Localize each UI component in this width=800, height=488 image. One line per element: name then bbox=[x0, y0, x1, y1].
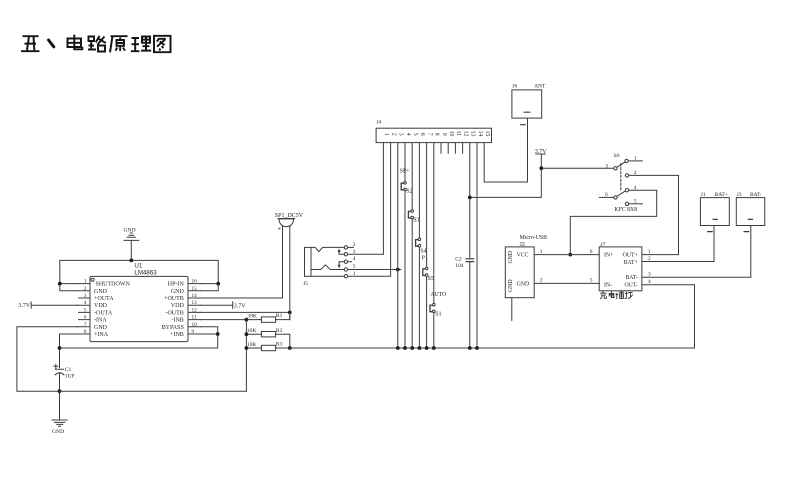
char 电 bbox=[68, 35, 83, 50]
U1 pin-1 indicator circle bbox=[91, 278, 94, 281]
svg-text:14: 14 bbox=[192, 293, 198, 299]
svg-text:GND: GND bbox=[508, 251, 514, 264]
svg-text:39K: 39K bbox=[247, 314, 257, 320]
svg-text:GND: GND bbox=[124, 227, 136, 233]
wire: J4 pin 6 column (with switch S4 gap) bbox=[418, 143, 420, 348]
svg-text:3: 3 bbox=[648, 271, 651, 277]
pushbutton S5 bbox=[423, 267, 428, 276]
svg-text:8: 8 bbox=[434, 133, 440, 136]
J2 labels bbox=[520, 235, 548, 248]
junction dot VCC node bbox=[568, 253, 572, 257]
U1 right pin stubs 16-9 bbox=[188, 284, 201, 334]
wire: 3.7V node to S6 pin 3 bbox=[541, 167, 614, 169]
svg-text:7: 7 bbox=[426, 133, 432, 136]
svg-text:8: 8 bbox=[84, 329, 87, 335]
wire: S6 pin 6 stub bbox=[599, 196, 614, 198]
svg-text:3: 3 bbox=[605, 163, 608, 169]
svg-text:*: * bbox=[278, 228, 281, 234]
svg-text:+OUTA: +OUTA bbox=[94, 296, 114, 302]
svg-text:R3: R3 bbox=[276, 342, 283, 348]
svg-text:6: 6 bbox=[590, 249, 593, 255]
wire: S6 pin 2 to J7 OUT+ bbox=[629, 175, 679, 254]
junction dot pin9 bbox=[216, 332, 220, 336]
U1 right pin names bbox=[162, 282, 185, 338]
module J7 charging board bbox=[599, 247, 642, 291]
svg-text:12: 12 bbox=[462, 131, 468, 137]
wire: S6 pin 1 stub bbox=[628, 160, 642, 162]
svg-text:12: 12 bbox=[192, 307, 198, 313]
wire: J4 pin 5 column (with switch S3 gap) bbox=[411, 143, 413, 348]
J5 pin 4 contact with arrow bbox=[338, 260, 352, 268]
svg-text:J3: J3 bbox=[737, 192, 742, 198]
op-amp U1 LM4863 body bbox=[90, 276, 188, 341]
S5 label bbox=[428, 276, 434, 282]
S6 labels bbox=[605, 153, 637, 204]
J3 labels bbox=[737, 192, 762, 198]
svg-text:GND: GND bbox=[171, 289, 185, 295]
svg-text:J1: J1 bbox=[701, 192, 706, 198]
connector J4 header bbox=[376, 128, 491, 142]
wire: SP1 left terminal to U1 pin 14 bbox=[282, 226, 284, 298]
connector J2 Micro-USB bbox=[505, 247, 534, 298]
J5 pin 1 sleeve contact bbox=[311, 275, 348, 278]
svg-text:R1: R1 bbox=[276, 313, 283, 319]
svg-text:S1: S1 bbox=[435, 312, 441, 318]
net label P bbox=[422, 256, 425, 262]
wire: J5 pin 1 to J4 pin 2 bbox=[348, 143, 391, 277]
U1 left pin stubs 1-8 bbox=[78, 284, 91, 334]
svg-text:6: 6 bbox=[84, 315, 87, 321]
svg-text:Micro-USB: Micro-USB bbox=[520, 235, 548, 241]
svg-text:GND: GND bbox=[508, 279, 514, 292]
R2 labels bbox=[247, 328, 283, 334]
U1 reference labels bbox=[134, 263, 157, 277]
pushbutton S4 bbox=[416, 238, 421, 247]
junction dot J5 pin5 / J4 pin3 bbox=[396, 268, 400, 272]
svg-text:3.7V: 3.7V bbox=[234, 303, 247, 309]
wire: J2 pin 2 GND to J7 IN- bbox=[534, 282, 599, 284]
J4 label bbox=[377, 120, 382, 126]
J2 inner texts bbox=[508, 251, 529, 292]
svg-text:10K: 10K bbox=[247, 328, 257, 334]
svg-text:3: 3 bbox=[398, 133, 404, 136]
svg-text:SP+: SP+ bbox=[400, 168, 410, 174]
svg-text:GND: GND bbox=[52, 429, 64, 435]
svg-text:15: 15 bbox=[484, 131, 490, 137]
svg-text:2: 2 bbox=[84, 286, 87, 292]
connector J3 battery bbox=[736, 198, 765, 226]
S4 label bbox=[420, 248, 426, 254]
resistor R2 10K bbox=[246, 332, 289, 349]
svg-text:S3: S3 bbox=[413, 217, 419, 223]
svg-text:C2: C2 bbox=[455, 256, 462, 262]
svg-text:SHUTDOWN: SHUTDOWN bbox=[96, 282, 131, 288]
svg-text:R2: R2 bbox=[276, 328, 283, 334]
wire: J7 pin 3 BAT- to J3 bbox=[642, 226, 751, 278]
svg-text:LM4863: LM4863 bbox=[134, 269, 157, 276]
svg-text:4: 4 bbox=[353, 256, 356, 262]
connector J6 antenna bbox=[512, 90, 542, 118]
J5 pin 2 tip contact bbox=[311, 246, 354, 252]
node 3.7V (left power flag) bbox=[30, 302, 32, 308]
wire: J4 pins 9-12 stubs bbox=[441, 143, 463, 154]
title 五、电路原理图 (hand-drawn strokes) bbox=[21, 35, 171, 53]
svg-text:1: 1 bbox=[648, 249, 651, 255]
3.7V right label bbox=[535, 149, 548, 155]
J1 labels bbox=[701, 192, 728, 198]
svg-text:AUTO: AUTO bbox=[430, 292, 446, 298]
svg-text:BAT+: BAT+ bbox=[715, 192, 728, 198]
svg-text:IN-: IN- bbox=[604, 282, 612, 288]
char 五 bbox=[21, 36, 40, 51]
svg-text:6: 6 bbox=[419, 133, 425, 136]
svg-text:5: 5 bbox=[412, 133, 418, 136]
svg-text:HP-IN: HP-IN bbox=[168, 282, 185, 288]
junction dots C1 bbox=[58, 346, 62, 393]
svg-text:S6: S6 bbox=[614, 153, 620, 159]
svg-text:5: 5 bbox=[590, 277, 593, 283]
J5 pin number labels bbox=[353, 242, 356, 277]
svg-text:J5: J5 bbox=[303, 281, 308, 287]
svg-text:4: 4 bbox=[84, 300, 87, 306]
SP1 label bbox=[275, 213, 304, 219]
wire: bypass rail pin8/9/10 U-loop bbox=[60, 327, 218, 348]
U1 right pin numbers bbox=[192, 279, 198, 335]
wire: U1 pin 12 to speaker node bbox=[201, 311, 290, 313]
svg-text:4: 4 bbox=[405, 133, 411, 136]
svg-text:S2: S2 bbox=[406, 189, 412, 195]
svg-text:BYPASS: BYPASS bbox=[162, 325, 184, 331]
wire: U1 pin 14 to speaker left bbox=[201, 297, 283, 299]
J7 right pin numbers bbox=[648, 249, 651, 285]
wire: J4 pin 14 column to gnd bus bbox=[476, 143, 478, 348]
svg-text:GND: GND bbox=[94, 289, 108, 295]
label 充电模块 (hand-drawn) bbox=[600, 291, 632, 298]
U1 left pin names bbox=[94, 282, 130, 338]
svg-text:13: 13 bbox=[470, 131, 476, 137]
svg-text:-INB: -INB bbox=[171, 318, 183, 324]
svg-text:SP1_DC5V: SP1_DC5V bbox=[275, 213, 304, 219]
resistor R1 39K bbox=[246, 312, 289, 322]
wire: 3.7V node down to J4 pin 13 column bbox=[470, 168, 542, 197]
U1 left pin numbers bbox=[84, 279, 87, 335]
svg-text:OUT-: OUT- bbox=[624, 282, 637, 288]
wire: J5 pin 5 to J4 pin 3 column bbox=[348, 269, 401, 271]
J6 polarity dashes bbox=[521, 112, 530, 125]
node 3.7V (right power flag) bbox=[536, 154, 546, 168]
svg-text:KFC 8X8: KFC 8X8 bbox=[614, 207, 637, 213]
svg-text:2: 2 bbox=[390, 133, 396, 136]
svg-text:S5: S5 bbox=[428, 276, 434, 282]
wire: J4 pin 15 to antenna J6 bbox=[484, 118, 527, 182]
capacitor C2 104 bbox=[466, 259, 474, 262]
svg-text:5: 5 bbox=[353, 264, 356, 270]
svg-text:2: 2 bbox=[353, 242, 356, 248]
wire: J7 pin 2 BAT+ to J1 bbox=[642, 226, 714, 262]
char 理 bbox=[131, 37, 151, 52]
svg-text:+OUTB: +OUTB bbox=[164, 296, 184, 302]
svg-text:GND: GND bbox=[94, 325, 108, 331]
R3 labels bbox=[247, 342, 283, 348]
wire: top gnd loop around U1 (pins 1,2,15,16) bbox=[60, 260, 218, 290]
char 、 bbox=[49, 40, 54, 47]
wire: SP1 right terminal to U1 pin 12 node / R1 bbox=[289, 226, 291, 319]
svg-text:10: 10 bbox=[448, 131, 454, 137]
svg-text:9: 9 bbox=[192, 329, 195, 335]
connector J1 battery bbox=[700, 198, 729, 226]
svg-text:+INA: +INA bbox=[94, 332, 109, 338]
wire: 3.7V to U1 pin 4 bbox=[31, 304, 77, 306]
resistor R3 10K bbox=[246, 345, 289, 350]
svg-text:ANT: ANT bbox=[534, 84, 546, 90]
svg-text:10: 10 bbox=[192, 322, 198, 328]
svg-text:5: 5 bbox=[84, 307, 87, 313]
J7 label bbox=[600, 242, 605, 248]
wire: gnd rail from outer loop to resistor column bbox=[60, 320, 247, 392]
GND label (bottom) bbox=[52, 429, 64, 435]
junction dots 3.7V net bbox=[468, 166, 543, 199]
svg-text:VCC: VCC bbox=[517, 253, 529, 259]
J5 pin 5 ring contact bbox=[311, 265, 348, 271]
ground (bottom, below C1) bbox=[52, 391, 67, 426]
svg-text:+INB: +INB bbox=[170, 332, 184, 338]
char 图 bbox=[154, 36, 171, 52]
svg-text:BAT-: BAT- bbox=[625, 275, 637, 281]
junction dots R3 bbox=[245, 346, 292, 350]
svg-text:1UF: 1UF bbox=[65, 374, 75, 380]
svg-text:1: 1 bbox=[383, 133, 389, 136]
J5 pin 3 contact with arrow bbox=[338, 248, 348, 256]
wire: J4 pin 3 column down to gnd bus bbox=[397, 143, 399, 348]
svg-text:C1: C1 bbox=[65, 367, 72, 373]
svg-text:15: 15 bbox=[192, 286, 198, 292]
svg-text:104: 104 bbox=[455, 263, 464, 269]
svg-text:1: 1 bbox=[84, 279, 87, 285]
C1 value labels bbox=[65, 367, 75, 379]
svg-text:4: 4 bbox=[648, 279, 651, 285]
svg-text:11: 11 bbox=[455, 131, 461, 137]
wire: S6 pin 4 to VCC node bbox=[570, 190, 656, 254]
capacitor C1 (polarized) bbox=[54, 348, 64, 391]
J7 inner texts bbox=[604, 253, 613, 289]
J2 pin numbers bbox=[540, 249, 543, 284]
junction dots on gnd loop bbox=[58, 259, 220, 286]
S3 label bbox=[413, 217, 419, 223]
svg-text:VDD: VDD bbox=[171, 303, 185, 309]
svg-text:11: 11 bbox=[192, 315, 197, 321]
svg-text:-INA: -INA bbox=[94, 318, 107, 324]
svg-text:GND: GND bbox=[517, 281, 530, 287]
SP1 polarity mark bbox=[278, 228, 281, 234]
wire: J4 pin 4 column (with switch S2 gap) bbox=[404, 143, 406, 348]
junction dots R1 bbox=[245, 311, 292, 322]
svg-text:14: 14 bbox=[477, 131, 483, 137]
GND label (top) bbox=[124, 227, 136, 233]
svg-text:1: 1 bbox=[540, 249, 543, 255]
wire: ground bus bottom bbox=[290, 285, 695, 348]
svg-text:J2: J2 bbox=[520, 242, 525, 248]
wire: J2 gnd stub bbox=[511, 298, 513, 321]
KFC 8X8 label bbox=[614, 207, 637, 213]
wire: J4 pin 8 column (with switch S1 gap) bbox=[433, 143, 435, 348]
pushbutton S1 bbox=[430, 303, 435, 312]
ground (top, above U1) bbox=[124, 233, 139, 260]
svg-text:J6: J6 bbox=[512, 84, 517, 90]
R1 labels bbox=[247, 313, 282, 319]
net label AUTO bbox=[430, 292, 446, 298]
J1 polarity dashes bbox=[708, 219, 718, 231]
wire: U1 pin 7 outer loop to bottom gnd rail bbox=[17, 327, 78, 391]
junction dot R2 bbox=[245, 332, 249, 336]
J7 left pin numbers bbox=[590, 249, 593, 284]
svg-text:P: P bbox=[422, 256, 425, 262]
svg-text:BAT+: BAT+ bbox=[624, 260, 638, 266]
wire: J5 pin 3 to J4 pin 1 bbox=[348, 143, 384, 255]
J5 label bbox=[303, 281, 308, 287]
svg-text:BAT-: BAT- bbox=[750, 192, 762, 198]
char 路 bbox=[88, 36, 106, 52]
wire: J4 pin 7 column (with switch S5 gap) bbox=[426, 143, 428, 348]
svg-text:9: 9 bbox=[441, 133, 447, 136]
J3 polarity dashes bbox=[744, 219, 752, 231]
J6 labels bbox=[512, 84, 546, 90]
svg-text:J7: J7 bbox=[600, 242, 605, 248]
svg-text:13: 13 bbox=[192, 300, 198, 306]
3.7V label (at U1 pin 13) bbox=[234, 303, 247, 309]
svg-text:2: 2 bbox=[540, 277, 543, 283]
svg-text:3: 3 bbox=[84, 293, 87, 299]
svg-text:3.7V: 3.7V bbox=[535, 149, 548, 155]
svg-text:7: 7 bbox=[84, 322, 87, 328]
svg-text:16: 16 bbox=[192, 279, 198, 285]
connector J5 headphone jack body bbox=[305, 247, 312, 276]
speaker SP1 DC5V bbox=[278, 219, 294, 227]
wire: U1 pin 13 to 3.7V tick bbox=[201, 302, 233, 309]
svg-text:-OUTB: -OUTB bbox=[165, 310, 183, 316]
wire: J4 pin 13 column to C2 and gnd bus bbox=[469, 143, 471, 348]
S2 label bbox=[406, 189, 412, 195]
svg-text:OUT+: OUT+ bbox=[623, 253, 638, 259]
svg-text:10K: 10K bbox=[247, 342, 257, 348]
J4 pin numbers (rotated) bbox=[383, 131, 490, 137]
wire: S6 pin 5 stub bbox=[629, 203, 643, 205]
svg-text:J4: J4 bbox=[377, 120, 382, 126]
svg-text:-OUTA: -OUTA bbox=[94, 310, 113, 316]
net label SP+ bbox=[400, 168, 410, 174]
C2 labels bbox=[455, 256, 464, 269]
S1 label bbox=[435, 312, 441, 318]
pushbutton S3 bbox=[408, 210, 413, 219]
svg-text:S4: S4 bbox=[420, 248, 426, 254]
char 原 bbox=[110, 36, 128, 52]
S6 linkage dashed line bbox=[620, 164, 622, 191]
wire: U1 pin 11 to R1 bbox=[201, 319, 247, 321]
svg-text:IN+: IN+ bbox=[604, 253, 613, 259]
switch S6 KFC 8X8 contacts bbox=[614, 159, 629, 205]
S6 levers bbox=[617, 162, 625, 197]
svg-text:3.7V: 3.7V bbox=[18, 303, 31, 309]
junction dots on ground bus bbox=[396, 346, 479, 350]
wire: J2 pin 1 VCC to J7 IN+ bbox=[534, 254, 599, 256]
pushbutton S2 bbox=[401, 182, 406, 191]
svg-text:VDD: VDD bbox=[94, 303, 108, 309]
wire: U1 pin 8 down to bypass node bbox=[60, 334, 78, 348]
